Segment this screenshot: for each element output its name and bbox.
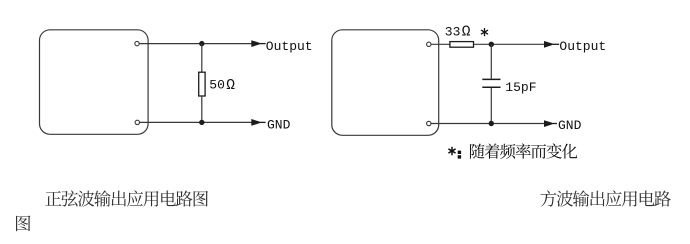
svg-text:GND: GND <box>558 118 582 133</box>
resistor R1 body <box>199 72 205 96</box>
svg-text:Ω: Ω <box>226 78 235 94</box>
svg-text:33: 33 <box>445 25 461 40</box>
note: asterisk footnote marker <box>449 147 461 158</box>
arrow: right GND terminal <box>544 120 557 127</box>
wire: junction to R1 top lead <box>201 44 203 73</box>
wire: junction to C1 top plate <box>490 44 492 78</box>
wire: C1 bottom plate to GND wire <box>490 88 492 124</box>
node: left ground junction <box>199 120 204 125</box>
svg-text:15pF: 15pF <box>505 80 536 95</box>
caption: right circuit title (first line) <box>540 190 670 206</box>
wire: U1 output pin to Output arrow <box>139 43 252 45</box>
pin: U2 output pin <box>427 42 431 46</box>
svg-text:Output: Output <box>266 39 313 54</box>
pin: U1 output pin <box>135 41 139 45</box>
pin: U2 ground pin <box>427 121 431 125</box>
svg-text:GND: GND <box>267 117 291 132</box>
caption: right circuit title (wrapped char) <box>16 216 30 232</box>
node: right output junction <box>489 42 494 47</box>
wire: U1 ground pin to GND arrow <box>140 121 252 123</box>
capacitor C1 top plate <box>482 78 500 80</box>
capacitor C1 bottom plate <box>482 86 500 88</box>
label: asterisk marker (6-spoke) <box>481 29 487 36</box>
arrow: right Output terminal <box>544 41 559 48</box>
node: right ground junction <box>489 121 494 126</box>
svg-text:Ω: Ω <box>462 25 471 41</box>
caption: left circuit title <box>45 190 208 206</box>
wire: U2 ground pin to GND arrow <box>431 123 545 125</box>
svg-text:Output: Output <box>559 39 606 54</box>
arrow: left Output terminal <box>251 40 265 47</box>
IC U1 (left box, sine-wave output device) <box>40 30 149 135</box>
wire: U2 output pin to R2 <box>431 43 450 45</box>
note: frequency-dependence text <box>470 143 577 158</box>
resistor R2 body (33 ohm, horizontal) <box>450 42 474 48</box>
wire: R1 bottom lead to GND wire <box>201 96 203 122</box>
wire: R2 to right output junction and arrow <box>474 43 545 45</box>
node: left output junction <box>199 41 204 46</box>
svg-text:50: 50 <box>209 78 225 93</box>
IC U2 (right box, square-wave output device) <box>332 30 439 136</box>
arrow: left GND terminal <box>251 119 265 126</box>
pin: U1 ground pin <box>135 120 139 124</box>
